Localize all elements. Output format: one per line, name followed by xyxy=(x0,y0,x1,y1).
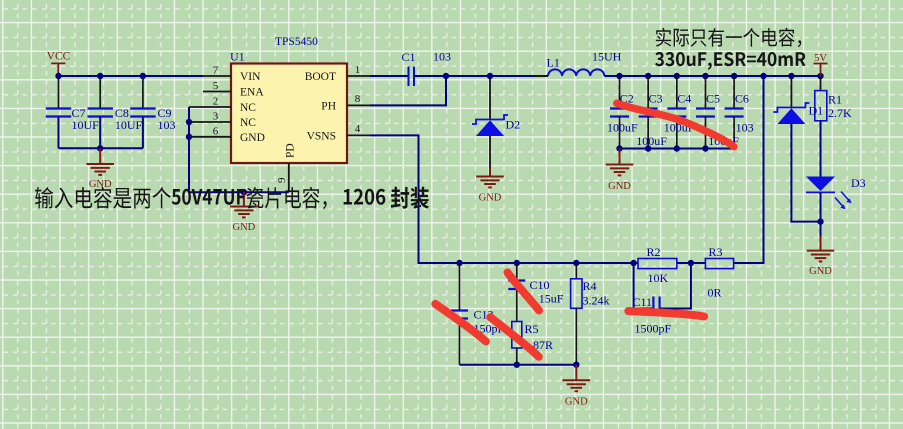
wire C8 to ground xyxy=(99,117,101,149)
U1 pin 1 (BOOT) xyxy=(305,64,370,83)
svg-text:15UH: 15UH xyxy=(592,49,622,63)
wire L1 stubs xyxy=(534,75,620,77)
diode D1 (schottky) xyxy=(773,103,809,124)
svg-text:3.24k: 3.24k xyxy=(583,294,610,308)
svg-text:0R: 0R xyxy=(708,286,722,300)
svg-text:C11: C11 xyxy=(633,295,653,309)
wire R2-R3 link xyxy=(677,262,706,264)
wire pin8 PH riser xyxy=(370,76,446,105)
node D2 tap xyxy=(487,73,493,79)
svg-text:C1: C1 xyxy=(402,50,416,64)
annotation text line1 实际只有一个电容， xyxy=(656,28,801,47)
svg-text:9: 9 xyxy=(276,177,288,183)
svg-text:R1: R1 xyxy=(828,93,842,107)
node vsns x=690.9 xyxy=(688,260,694,266)
svg-text:NC: NC xyxy=(240,117,256,129)
svg-text:D2: D2 xyxy=(506,118,521,132)
capacitor C12 xyxy=(451,263,468,365)
wire D1 drop xyxy=(790,76,792,108)
svg-text:U1: U1 xyxy=(230,49,245,63)
wire to right ground xyxy=(820,222,822,236)
power 5V xyxy=(814,53,828,76)
svg-text:3: 3 xyxy=(213,111,219,123)
annotation text line2 330uF,ESR=40mR xyxy=(655,52,806,70)
node bottom rail x=676.8 xyxy=(674,145,680,151)
U1 pin 6 (GND) xyxy=(189,125,265,144)
annotation text bottom 50V47UF (red) xyxy=(172,189,245,205)
svg-text:R5: R5 xyxy=(525,322,539,336)
svg-text:7: 7 xyxy=(213,65,219,77)
svg-text:2: 2 xyxy=(213,96,219,108)
U1 pin 7 (VIN) xyxy=(203,65,261,84)
ground U1 xyxy=(230,192,258,217)
annotation red strike through R5 xyxy=(490,317,539,357)
U1 pin 2 (NC) xyxy=(189,96,256,115)
node output C2 xyxy=(616,73,622,79)
U1 pin 4 (VSNS) xyxy=(307,123,370,142)
wire C1 to PH node xyxy=(414,75,446,77)
svg-text:PD: PD xyxy=(285,143,297,158)
U1 pin 8 (PH) xyxy=(321,93,370,112)
svg-text:8: 8 xyxy=(355,93,361,105)
node output C6 xyxy=(731,73,737,79)
capacitor C8 xyxy=(88,76,113,117)
svg-text:2.7K: 2.7K xyxy=(828,106,852,120)
node output C3 xyxy=(645,73,651,79)
svg-text:R4: R4 xyxy=(583,279,597,293)
wire pin1 to C1 xyxy=(370,75,408,77)
svg-text:L1: L1 xyxy=(547,56,560,70)
node vsns x=633.6 xyxy=(630,260,636,266)
node bottom rail x=705.45 xyxy=(702,145,708,151)
node pin6 junction xyxy=(186,134,192,140)
wire D1 to bottom xyxy=(791,124,820,222)
node C8 top xyxy=(97,73,103,79)
svg-text:100uF: 100uF xyxy=(636,134,667,148)
svg-text:103: 103 xyxy=(158,118,176,132)
ground D2 xyxy=(476,168,504,187)
svg-text:GND: GND xyxy=(479,193,502,204)
svg-text:C5: C5 xyxy=(706,92,720,106)
svg-text:10UF: 10UF xyxy=(72,118,100,132)
wire U1 ground net xyxy=(189,107,289,192)
wire compensation bottom rail xyxy=(460,364,577,366)
svg-text:PH: PH xyxy=(321,101,336,113)
capacitor C11 xyxy=(653,297,659,313)
svg-text:VSNS: VSNS xyxy=(307,131,336,143)
wire input cap bottom rail xyxy=(59,117,143,149)
node vsns x=459.5 xyxy=(456,260,462,266)
svg-text:103: 103 xyxy=(433,50,451,64)
resistor R3 xyxy=(705,259,733,269)
svg-text:1500pF: 1500pF xyxy=(635,322,672,336)
ground right xyxy=(807,236,835,262)
resistor R1 xyxy=(815,76,827,179)
node C9 top xyxy=(140,73,146,79)
capacitor C3 xyxy=(639,76,658,149)
svg-text:GND: GND xyxy=(89,179,112,190)
wire VSNS run xyxy=(370,135,638,263)
wire C11 right xyxy=(660,263,691,309)
svg-text:4: 4 xyxy=(355,123,361,135)
node vsns x=576.3 xyxy=(573,260,579,266)
annotation red strike through C10 xyxy=(508,273,540,311)
capacitor C5 xyxy=(696,76,715,149)
svg-text:100uF: 100uF xyxy=(607,121,638,135)
svg-text:VCC: VCC xyxy=(47,51,71,63)
svg-text:R2: R2 xyxy=(647,245,661,259)
node D1 tap xyxy=(788,73,794,79)
diode D2 (schottky) xyxy=(472,115,508,136)
wire output rail xyxy=(604,75,820,77)
node C8 bottom xyxy=(97,145,103,151)
svg-text:C10: C10 xyxy=(530,278,550,292)
svg-text:D1: D1 xyxy=(809,104,824,118)
svg-text:10UF: 10UF xyxy=(115,118,143,132)
svg-text:VIN: VIN xyxy=(240,71,261,83)
annotation red strike through C2-C6 xyxy=(617,103,734,146)
node D1/D3 join xyxy=(817,218,823,224)
svg-text:5: 5 xyxy=(213,80,219,92)
wire output cap bottom rail xyxy=(620,148,735,150)
node output C4 xyxy=(674,73,680,79)
capacitor C7 xyxy=(46,76,71,117)
svg-text:GND: GND xyxy=(240,132,265,144)
node BOOT/PH xyxy=(443,73,449,79)
svg-text:GND: GND xyxy=(608,181,631,192)
wire D2 to ground xyxy=(489,136,491,168)
node feedback tap xyxy=(760,73,766,79)
capacitor C4 xyxy=(667,76,686,149)
node bottom rail x=619.5 xyxy=(616,145,622,151)
svg-text:6: 6 xyxy=(213,125,219,137)
U1 pin 5 (ENA) xyxy=(203,80,264,99)
wire PH to L1 xyxy=(446,75,534,77)
svg-text:C3: C3 xyxy=(649,92,663,106)
resistor R5 xyxy=(512,322,522,365)
svg-text:D3: D3 xyxy=(851,176,866,190)
svg-text:C4: C4 xyxy=(677,92,691,106)
svg-text:NC: NC xyxy=(240,102,256,114)
node U1 gnd tap xyxy=(241,189,247,195)
svg-text:GND: GND xyxy=(565,396,588,407)
node bottom rail x=648.15 xyxy=(645,145,651,151)
capacitor C6 xyxy=(725,76,744,149)
node pin3 junction xyxy=(186,119,192,125)
annotation text bottom 1206 xyxy=(344,189,386,205)
resistor R2 xyxy=(638,259,677,269)
node 5V terminal xyxy=(817,73,823,79)
ground input xyxy=(86,148,114,175)
capacitor C10 xyxy=(508,263,525,322)
resistor R4 xyxy=(571,263,582,365)
power VCC xyxy=(47,51,71,77)
ground comp xyxy=(563,365,591,392)
svg-text:ENA: ENA xyxy=(240,87,264,99)
svg-text:GND: GND xyxy=(809,266,832,277)
annotation red strike through C11 xyxy=(628,311,704,317)
capacitor C2 xyxy=(610,76,629,149)
wire C11 left xyxy=(634,263,654,309)
LED D3 xyxy=(806,177,852,222)
node output C5 xyxy=(702,73,708,79)
wire D2 drop xyxy=(489,76,491,120)
inductor L1 xyxy=(548,69,604,76)
svg-text:TPS5450: TPS5450 xyxy=(275,36,318,48)
svg-text:1: 1 xyxy=(355,64,361,76)
svg-text:R3: R3 xyxy=(709,245,723,259)
node VCC/C7 xyxy=(55,73,61,79)
annotation text bottom 输入电容是两个 xyxy=(35,187,171,209)
annotation red strike through C12 xyxy=(435,304,486,342)
ground output xyxy=(606,149,634,176)
svg-text:103: 103 xyxy=(736,121,754,135)
op-amp U1 TPS5450 body xyxy=(231,64,347,164)
node comp rail C10 xyxy=(514,362,520,368)
wire feedback riser xyxy=(734,76,764,263)
capacitor C9 xyxy=(130,76,155,117)
svg-text:C6: C6 xyxy=(735,92,749,106)
U1 pin 9 (PD) xyxy=(276,143,297,192)
U1 pin 3 (NC) xyxy=(189,111,256,130)
annotation text bottom 封装 xyxy=(391,187,429,209)
capacitor C1 xyxy=(409,67,415,87)
svg-text:10K: 10K xyxy=(648,271,669,285)
node comp rail R4 xyxy=(573,362,579,368)
wire VCC rail to pin 7 xyxy=(59,75,204,77)
svg-text:5V: 5V xyxy=(814,53,827,64)
svg-text:15uF: 15uF xyxy=(539,292,564,306)
node vsns x=516.8 xyxy=(514,260,520,266)
svg-text:BOOT: BOOT xyxy=(305,71,336,83)
svg-text:GND: GND xyxy=(233,222,256,233)
annotation text bottom 瓷片电容， xyxy=(247,187,327,209)
